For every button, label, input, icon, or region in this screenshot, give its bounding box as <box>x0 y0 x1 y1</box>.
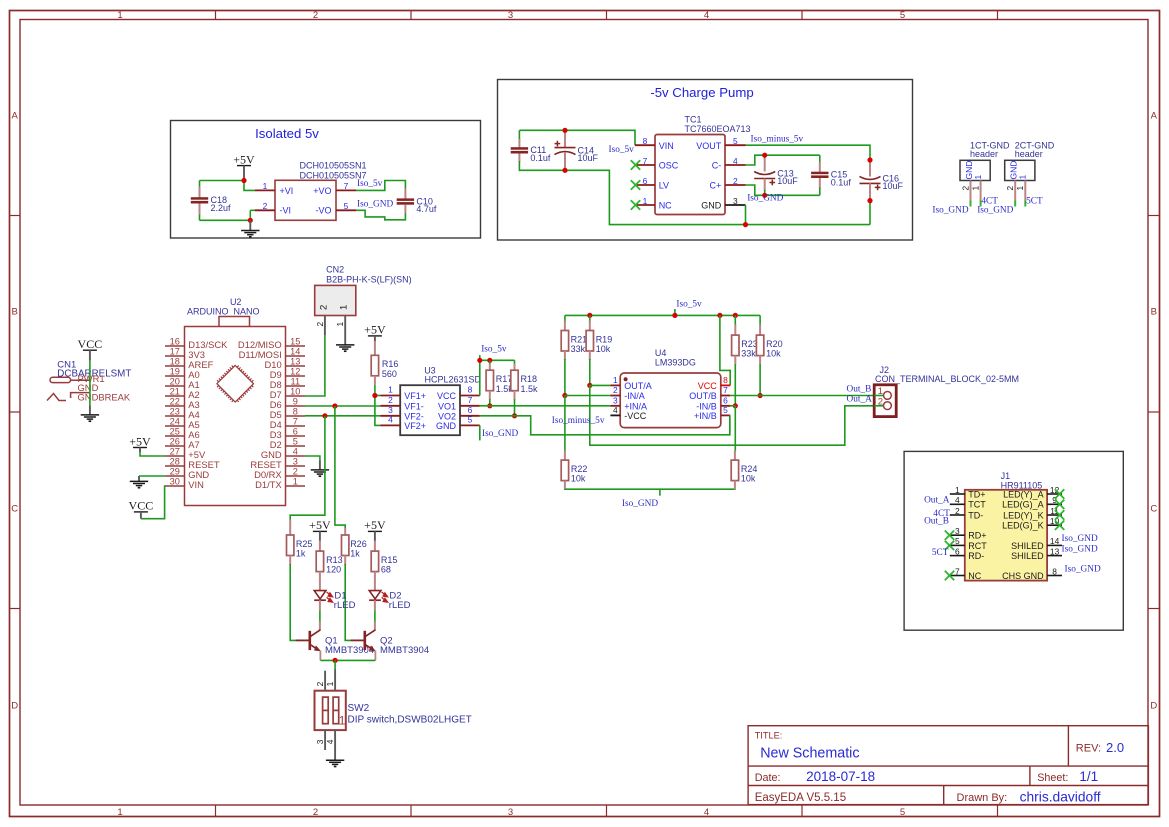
svg-text:C: C <box>11 503 18 514</box>
svg-text:30: 30 <box>170 477 180 487</box>
transistor Q1 MMBT3904 <box>296 630 374 661</box>
U2 chip glyph <box>217 365 254 402</box>
svg-text:20: 20 <box>170 377 180 387</box>
svg-text:1: 1 <box>643 196 648 206</box>
svg-text:rLED: rLED <box>334 600 356 611</box>
svg-text:+VI: +VI <box>280 186 294 196</box>
junction <box>332 403 337 408</box>
pin 7 +VO <box>313 181 356 196</box>
svg-text:New Schematic: New Schematic <box>760 745 859 761</box>
svg-text:TCT: TCT <box>968 500 986 510</box>
wire <box>290 416 325 521</box>
svg-text:CN2: CN2 <box>326 265 344 275</box>
pin 2 C+ <box>710 176 746 191</box>
svg-text:Date:: Date: <box>755 772 781 784</box>
junction <box>867 157 872 162</box>
svg-text:GND: GND <box>701 201 722 211</box>
wire <box>874 395 883 397</box>
pin 18 AREF <box>165 357 214 371</box>
svg-text:3: 3 <box>955 526 960 536</box>
svg-text:21: 21 <box>170 387 180 397</box>
wire <box>565 395 611 397</box>
svg-text:6: 6 <box>643 176 648 186</box>
junction <box>562 393 567 398</box>
svg-text:R20: R20 <box>766 339 783 349</box>
svg-text:D1/TX: D1/TX <box>255 479 282 490</box>
svg-text:+VO: +VO <box>313 186 331 196</box>
junction <box>672 313 677 318</box>
ground <box>336 345 354 351</box>
svg-text:19: 19 <box>170 367 180 377</box>
svg-text:1.5k: 1.5k <box>521 384 539 394</box>
svg-text:1k: 1k <box>296 549 306 559</box>
pin 16 D13/SCK <box>165 337 228 351</box>
pin 9 LED(G)_A <box>1002 495 1062 510</box>
svg-text:LED(Y)_K: LED(Y)_K <box>1003 510 1044 520</box>
wire <box>745 205 747 225</box>
pin 3 of SW2 <box>315 730 325 750</box>
svg-text:8: 8 <box>293 407 298 417</box>
svg-text:DCH010505SN1: DCH010505SN1 <box>299 161 366 171</box>
svg-text:R18: R18 <box>521 374 538 384</box>
wire <box>305 405 381 407</box>
svg-text:rLED: rLED <box>389 600 411 611</box>
svg-text:3: 3 <box>508 10 513 21</box>
junction <box>587 313 592 318</box>
svg-text:8: 8 <box>1052 566 1057 576</box>
junction <box>562 168 567 173</box>
pin 4 of SW2 <box>325 730 335 760</box>
pin 30 VIN <box>165 477 204 491</box>
junction <box>733 403 738 408</box>
pin 2 -VI <box>255 201 291 216</box>
svg-text:Iso_GND: Iso_GND <box>1065 565 1101 575</box>
svg-text:J1: J1 <box>1001 471 1011 481</box>
svg-text:7: 7 <box>723 385 728 395</box>
svg-text:10k: 10k <box>596 344 611 354</box>
svg-text:29: 29 <box>170 467 180 477</box>
svg-text:27: 27 <box>170 447 180 457</box>
junction <box>587 383 592 388</box>
no-connect X <box>1055 510 1064 519</box>
IC U3 HCPL2631SD (optocoupler) <box>400 365 481 435</box>
svg-text:Iso_5v: Iso_5v <box>609 145 635 155</box>
junction <box>248 218 253 223</box>
svg-text:B: B <box>12 306 18 317</box>
pin 20 A1 <box>165 377 200 391</box>
pin 10 D7 <box>270 387 305 401</box>
svg-text:10uF: 10uF <box>578 153 599 163</box>
pin 2 TD- <box>950 506 984 521</box>
wire <box>199 215 201 221</box>
connector CN1 DCBARRELSMT <box>47 360 131 403</box>
svg-text:4: 4 <box>733 156 738 166</box>
svg-text:SHILED: SHILED <box>1011 551 1044 561</box>
svg-text:R21: R21 <box>571 334 588 344</box>
svg-text:120: 120 <box>326 565 341 575</box>
IC U2 ARDUINO_NANO <box>185 297 286 505</box>
pin 10 LED(G)_K <box>1002 516 1062 531</box>
junction <box>733 313 738 318</box>
svg-text:5: 5 <box>723 405 728 415</box>
svg-text:TC7660EOA713: TC7660EOA713 <box>685 124 751 134</box>
svg-text:VF2-: VF2- <box>404 411 424 421</box>
svg-text:8: 8 <box>468 385 473 395</box>
svg-text:VF1-: VF1- <box>404 401 424 411</box>
svg-text:Out_A: Out_A <box>924 496 950 506</box>
svg-text:Iso_GND: Iso_GND <box>482 429 518 439</box>
svg-text:Iso_minus_5v: Iso_minus_5v <box>751 134 804 144</box>
pin 5 GND <box>436 414 480 431</box>
svg-text:68: 68 <box>381 565 391 575</box>
wire <box>480 405 611 407</box>
svg-text:A: A <box>1151 110 1158 121</box>
svg-text:+IN/B: +IN/B <box>694 411 717 421</box>
pin 4 TCT <box>950 495 986 510</box>
svg-text:1: 1 <box>970 186 980 191</box>
pin 13 D10 <box>264 357 305 371</box>
svg-text:14: 14 <box>1050 536 1060 546</box>
wire <box>249 210 251 220</box>
svg-text:+5V: +5V <box>309 518 331 532</box>
wire <box>140 452 165 456</box>
pin 29 GND <box>165 467 209 481</box>
wire <box>200 180 245 182</box>
pin 25 A6 <box>165 427 200 441</box>
svg-text:5: 5 <box>293 437 298 447</box>
pin 15 D12/MISO <box>238 337 305 351</box>
no-connect X pin 7 OSC <box>631 160 640 169</box>
block box -5v Charge Pump <box>498 80 913 241</box>
pin 1 VF1+ <box>381 385 427 402</box>
svg-text:14: 14 <box>290 347 300 357</box>
svg-text:4: 4 <box>293 447 298 457</box>
svg-text:1: 1 <box>973 175 983 180</box>
svg-text:LED(Y)_A: LED(Y)_A <box>1003 489 1044 499</box>
wire <box>250 209 255 211</box>
wire <box>565 314 760 316</box>
svg-text:-IN/A: -IN/A <box>624 391 645 401</box>
pin 9 D6 <box>270 397 305 411</box>
svg-text:1: 1 <box>955 485 960 495</box>
svg-text:11: 11 <box>291 377 301 387</box>
pin 1 OUT/A <box>610 375 651 391</box>
capacitor C14 10uF (polarized) <box>555 141 599 163</box>
junction <box>758 393 763 398</box>
pin 28 RESET <box>165 457 220 471</box>
svg-text:OUT/A: OUT/A <box>624 381 652 391</box>
svg-text:5: 5 <box>344 201 349 211</box>
junction <box>717 313 722 318</box>
svg-text:25: 25 <box>170 427 180 437</box>
wire <box>334 660 336 669</box>
pin 3 +IN/A <box>610 395 647 411</box>
svg-text:VCC: VCC <box>437 391 457 401</box>
svg-text:ARDUINO_NANO: ARDUINO_NANO <box>187 306 260 316</box>
pin 11 D8 <box>270 377 305 391</box>
svg-text:R22: R22 <box>571 464 588 474</box>
transistor Q2 MMBT3904 <box>351 630 429 661</box>
pin 8 D5 <box>270 407 305 421</box>
svg-text:+5V: +5V <box>364 518 386 532</box>
svg-text:header: header <box>970 149 998 159</box>
pin 1 D1/TX <box>255 477 305 491</box>
wire <box>356 181 405 191</box>
wire <box>746 145 871 160</box>
wire <box>479 360 481 395</box>
pin 3 GND <box>701 196 745 211</box>
wire <box>590 385 882 445</box>
pin 23 A4 <box>165 407 200 421</box>
svg-text:1: 1 <box>339 305 350 310</box>
svg-text:10uF: 10uF <box>777 176 798 186</box>
pin 13 SHILED <box>1011 546 1062 561</box>
svg-text:4: 4 <box>955 495 960 505</box>
svg-text:5CT: 5CT <box>1026 197 1043 207</box>
svg-text:Sheet:: Sheet: <box>1037 772 1068 784</box>
wire <box>139 475 165 477</box>
svg-text:-VO: -VO <box>315 206 331 216</box>
wire <box>519 130 635 145</box>
svg-text:5: 5 <box>955 536 960 546</box>
pin 21 A2 <box>165 387 200 401</box>
pin 6 D3 <box>270 427 305 441</box>
svg-text:1: 1 <box>1015 186 1025 191</box>
no-connect X pin 6 LV <box>631 180 640 189</box>
wire <box>734 406 736 452</box>
svg-text:VO2: VO2 <box>438 411 456 421</box>
resistor R24 10k <box>731 460 757 484</box>
svg-text:Iso_GND: Iso_GND <box>357 199 393 209</box>
svg-text:TD-: TD- <box>968 510 983 520</box>
junction <box>762 193 767 198</box>
power flag +5V <box>233 152 255 180</box>
svg-text:OUT/B: OUT/B <box>689 391 717 401</box>
junction <box>333 658 338 663</box>
wire <box>746 185 820 195</box>
svg-text:VCC: VCC <box>78 337 103 351</box>
svg-text:1: 1 <box>613 375 618 385</box>
svg-text:6: 6 <box>955 546 960 556</box>
svg-text:5: 5 <box>900 807 905 818</box>
pin 12 LED(Y)_A <box>1003 485 1062 500</box>
pin 4 VF2+ <box>381 414 427 431</box>
resistor R23 33k <box>732 335 758 359</box>
svg-text:1: 1 <box>325 681 335 686</box>
svg-text:VIN: VIN <box>659 141 674 151</box>
IC U4 LM393DG (comparator) <box>620 348 721 428</box>
pin 2 VF1- <box>381 395 424 412</box>
wire <box>746 155 820 165</box>
wire <box>565 488 735 490</box>
wire <box>199 181 201 187</box>
pin 8 VIN <box>635 136 674 151</box>
svg-text:1: 1 <box>263 181 268 191</box>
svg-text:MMBT3904: MMBT3904 <box>325 645 374 656</box>
resistor R18 1.5k <box>511 370 538 394</box>
IC DCH010505SN1 (isolated DC-DC) <box>275 161 367 221</box>
svg-text:2: 2 <box>263 201 268 211</box>
svg-text:Out_B: Out_B <box>847 384 872 394</box>
wire <box>305 335 325 396</box>
svg-text:Iso_GND: Iso_GND <box>1062 544 1098 554</box>
junction <box>867 198 872 203</box>
pin 1 of SW2 <box>325 670 335 691</box>
svg-text:5: 5 <box>733 136 738 146</box>
pin 19 A0 <box>165 367 200 381</box>
svg-text:R26: R26 <box>350 539 367 549</box>
power flag +5V <box>364 323 386 342</box>
svg-text:3: 3 <box>315 739 325 744</box>
svg-text:NC: NC <box>968 571 981 581</box>
svg-text:10k: 10k <box>571 474 586 484</box>
wire <box>345 564 351 640</box>
wire <box>375 396 381 426</box>
power flag +5V <box>309 518 331 541</box>
wire <box>89 361 91 406</box>
power flag VCC <box>129 499 154 519</box>
resistor R13 120 <box>316 551 342 575</box>
power flag +5V <box>129 434 151 452</box>
pin 24 A5 <box>165 417 200 431</box>
pin 7 VO1 <box>438 395 480 412</box>
svg-text:4: 4 <box>704 807 709 818</box>
junction <box>241 178 246 183</box>
svg-text:R16: R16 <box>382 359 399 369</box>
wire <box>590 384 611 386</box>
ground <box>130 481 148 487</box>
svg-text:HCPL2631SD: HCPL2631SD <box>425 375 482 385</box>
pin 4 GND <box>261 447 305 461</box>
svg-text:1/1: 1/1 <box>1079 769 1098 784</box>
no-connect X pin 1 NC <box>631 200 640 209</box>
no-connect X <box>945 541 954 550</box>
pin 6 -IN/B <box>696 395 730 411</box>
svg-text:4.7uf: 4.7uf <box>416 204 437 214</box>
svg-text:RCT: RCT <box>968 541 987 551</box>
svg-text:TITLE:: TITLE: <box>755 731 783 741</box>
svg-text:LED(G)_A: LED(G)_A <box>1002 500 1044 510</box>
wire <box>320 659 375 661</box>
wire <box>720 315 730 385</box>
block box J1 <box>904 451 1123 630</box>
pin 5 VOUT <box>696 136 745 151</box>
svg-text:2: 2 <box>318 305 329 310</box>
svg-text:12: 12 <box>290 367 300 377</box>
svg-text:2.0: 2.0 <box>1106 740 1124 755</box>
svg-text:1: 1 <box>293 477 298 487</box>
svg-text:2018-07-18: 2018-07-18 <box>806 769 875 784</box>
connector J2 CON_TERMINAL_BLOCK_02-5MM <box>874 365 1019 417</box>
pin 5 RCT <box>950 536 987 551</box>
svg-text:16: 16 <box>170 337 180 347</box>
wire <box>141 486 165 519</box>
pin 1 of CN2 <box>335 316 345 346</box>
junction <box>487 358 492 363</box>
no-connect X <box>945 571 954 580</box>
capacitor C15 0.1uf <box>811 170 851 188</box>
pin 12 D9 <box>270 367 305 381</box>
svg-text:15: 15 <box>290 337 300 347</box>
wire <box>290 564 296 640</box>
svg-text:NC: NC <box>659 201 672 211</box>
svg-text:chris.davidoff: chris.davidoff <box>1020 790 1101 805</box>
resistor R26 1k <box>342 535 367 559</box>
connector header 1CT-GND <box>960 141 1010 181</box>
pin 2 of 1CT-GND <box>960 181 970 207</box>
svg-text:VCC: VCC <box>129 499 154 513</box>
pin 17 3V3 <box>165 347 205 361</box>
pin 5 +IN/B <box>694 405 730 421</box>
svg-text:23: 23 <box>170 407 180 417</box>
pin 2 of CN2 <box>315 316 325 336</box>
svg-text:VOUT: VOUT <box>696 141 722 151</box>
pin 3 VF2- <box>381 405 424 422</box>
wire <box>375 395 381 397</box>
svg-text:2: 2 <box>293 467 298 477</box>
junction <box>372 393 377 398</box>
svg-text:U4: U4 <box>655 348 667 358</box>
svg-text:B2B-PH-K-S(LF)(SN): B2B-PH-K-S(LF)(SN) <box>326 274 412 284</box>
switch SW2 DIP switch,DSWB02LHGET <box>315 691 472 730</box>
wire <box>721 405 736 407</box>
svg-text:1: 1 <box>117 807 122 818</box>
svg-text:VIN: VIN <box>188 479 204 490</box>
svg-text:Iso_GND: Iso_GND <box>622 499 658 509</box>
capacitor C13 10uF (polarized) <box>754 169 798 187</box>
svg-text:RD+: RD+ <box>968 531 986 541</box>
svg-text:1: 1 <box>117 10 122 21</box>
svg-text:-VCC: -VCC <box>624 411 646 421</box>
svg-text:2: 2 <box>313 807 318 818</box>
pin 1 NC <box>635 196 672 211</box>
svg-text:C-: C- <box>712 161 722 171</box>
svg-text:+5V: +5V <box>233 152 255 166</box>
pin 5 D2 <box>270 437 305 451</box>
svg-text:LED(G)_K: LED(G)_K <box>1002 521 1044 531</box>
resistor R22 10k <box>561 460 587 484</box>
pin 8 CHS GND <box>1002 566 1062 581</box>
svg-text:0.1uf: 0.1uf <box>530 153 551 163</box>
svg-text:7: 7 <box>643 156 648 166</box>
svg-text:2: 2 <box>315 322 325 327</box>
svg-text:+5V: +5V <box>364 323 386 337</box>
svg-text:10k: 10k <box>766 349 781 359</box>
svg-text:18: 18 <box>170 357 180 367</box>
svg-text:1: 1 <box>1018 175 1028 180</box>
pin 8 VCC <box>437 385 480 402</box>
resistor R21 33k <box>561 331 587 355</box>
wire <box>305 456 320 461</box>
pin 4 -VCC <box>610 405 646 421</box>
no-connect X <box>945 531 954 540</box>
svg-text:1k: 1k <box>350 549 360 559</box>
svg-text:560: 560 <box>382 369 397 379</box>
LED D1 rLED <box>314 590 355 611</box>
svg-text:8: 8 <box>723 375 728 385</box>
svg-text:Out_A: Out_A <box>847 395 873 405</box>
pin 2 D0/RX <box>254 467 305 481</box>
svg-text:1: 1 <box>339 714 346 728</box>
svg-text:TD+: TD+ <box>968 489 985 499</box>
pin 7 OSC <box>635 156 679 171</box>
svg-text:4: 4 <box>388 414 393 424</box>
wire <box>564 396 566 452</box>
svg-text:-IN/B: -IN/B <box>696 401 717 411</box>
svg-text:Out_B: Out_B <box>924 517 949 527</box>
capacitor C16 10uF (polarized) <box>860 173 904 191</box>
wire <box>335 406 345 529</box>
